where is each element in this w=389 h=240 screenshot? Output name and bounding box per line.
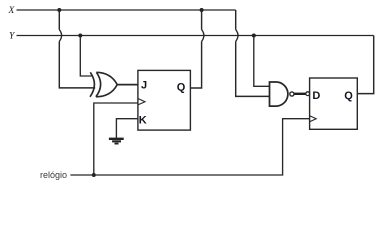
svg-text:J: J xyxy=(141,80,147,92)
wire XOR output to J input xyxy=(117,84,138,86)
node C junction dot on Y xyxy=(252,34,256,38)
ground symbol xyxy=(109,138,124,145)
svg-text:D: D xyxy=(312,90,320,102)
wire JK Q output up to X bus xyxy=(190,10,201,88)
svg-text:X: X xyxy=(7,6,15,16)
wire DFF Q feedback up to Y bus xyxy=(357,36,373,94)
svg-text:Q: Q xyxy=(344,90,353,102)
node B junction dot on Y xyxy=(78,34,82,38)
svg-text:K: K xyxy=(139,114,147,126)
svg-text:Q: Q xyxy=(177,82,186,94)
wire Y tap down to NAND upper input xyxy=(254,36,270,87)
wire Y tap down to XOR upper input xyxy=(80,36,91,77)
wire K input to ground xyxy=(116,119,137,138)
JK clock triangle xyxy=(138,99,145,105)
D input bubble xyxy=(306,92,310,96)
node junction dot JK-Q on X bus xyxy=(200,8,204,12)
wire relogio line to DFF clock input xyxy=(70,119,309,175)
node A junction dot on X xyxy=(57,8,61,12)
wire hop over Y at x=59 xyxy=(59,30,61,42)
wire X bus down to NAND lower input xyxy=(236,10,270,96)
XOR gate input arc xyxy=(90,72,94,97)
DFF clock triangle xyxy=(310,116,317,122)
wire X bus xyxy=(17,9,236,11)
wire hop over Y at x=235 xyxy=(236,30,238,42)
wire X tap down to XOR lower input xyxy=(59,10,95,88)
wire hop over Y at x=201 xyxy=(202,30,204,42)
NAND output bubble xyxy=(290,92,294,96)
svg-text:relógio: relógio xyxy=(40,170,67,180)
NAND gate G2 body xyxy=(270,82,288,106)
junction dot on relogio line xyxy=(92,173,96,177)
wire clock line to JK clock input xyxy=(94,103,138,175)
wire NAND output to D input xyxy=(294,93,305,95)
D flip-flop box U2 xyxy=(310,78,358,129)
wire Y bus xyxy=(17,35,374,37)
JK flip-flop box U1 xyxy=(138,70,191,130)
XOR gate body xyxy=(96,72,117,97)
